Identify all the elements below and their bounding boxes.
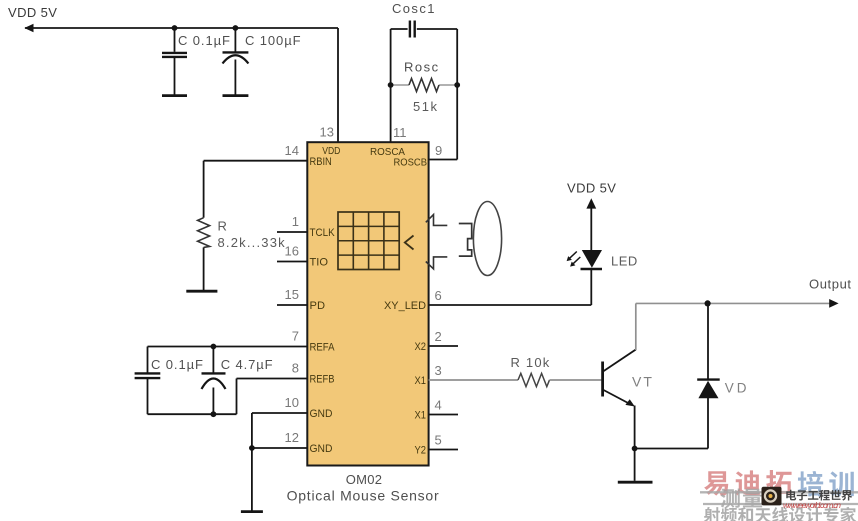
svg-text:13: 13 bbox=[320, 125, 334, 140]
svg-text:4: 4 bbox=[435, 398, 442, 413]
svg-text:XY_LED: XY_LED bbox=[384, 300, 426, 312]
svg-text:C 0.1µF: C 0.1µF bbox=[151, 357, 204, 372]
svg-text:PD: PD bbox=[310, 300, 326, 312]
svg-text:5: 5 bbox=[435, 433, 442, 448]
svg-text:14: 14 bbox=[285, 143, 299, 158]
svg-text:8.2k...33k: 8.2k...33k bbox=[218, 235, 286, 250]
svg-text:9: 9 bbox=[435, 143, 442, 158]
svg-text:GND: GND bbox=[310, 408, 333, 420]
svg-text:X1: X1 bbox=[415, 409, 427, 421]
svg-text:15: 15 bbox=[285, 287, 299, 302]
svg-text:7: 7 bbox=[292, 329, 299, 344]
svg-text:Rosc: Rosc bbox=[404, 60, 440, 75]
svg-text:C 100µF: C 100µF bbox=[245, 33, 301, 48]
svg-text:OM02: OM02 bbox=[346, 472, 383, 487]
svg-text:ROSCB: ROSCB bbox=[394, 156, 428, 168]
svg-text:REFB: REFB bbox=[310, 374, 335, 386]
svg-text:Output: Output bbox=[809, 277, 852, 292]
svg-text:R: R bbox=[218, 219, 227, 234]
svg-text:RBIN: RBIN bbox=[310, 156, 332, 168]
svg-text:51k: 51k bbox=[413, 99, 438, 114]
svg-text:6: 6 bbox=[435, 288, 442, 303]
svg-text:16: 16 bbox=[285, 244, 299, 259]
svg-text:VD: VD bbox=[725, 380, 750, 395]
svg-text:VT: VT bbox=[632, 374, 654, 390]
svg-text:X2: X2 bbox=[415, 341, 427, 353]
svg-text:VDD: VDD bbox=[322, 145, 341, 157]
svg-text:3: 3 bbox=[435, 363, 442, 378]
svg-text:1: 1 bbox=[292, 214, 299, 229]
svg-text:C 0.1µF: C 0.1µF bbox=[178, 33, 231, 48]
svg-text:C 4.7µF: C 4.7µF bbox=[221, 357, 274, 372]
svg-text:2: 2 bbox=[435, 329, 442, 344]
svg-text:8: 8 bbox=[292, 361, 299, 376]
svg-text:LED: LED bbox=[611, 253, 638, 268]
svg-text:TIO: TIO bbox=[310, 257, 329, 269]
svg-text:X1: X1 bbox=[415, 375, 427, 387]
svg-text:VDD 5V: VDD 5V bbox=[8, 5, 57, 20]
svg-text:Y2: Y2 bbox=[415, 444, 427, 456]
svg-text:Optical Mouse Sensor: Optical Mouse Sensor bbox=[287, 488, 440, 504]
svg-text:REFA: REFA bbox=[310, 342, 336, 354]
svg-text:10: 10 bbox=[285, 395, 299, 410]
svg-text:11: 11 bbox=[393, 125, 407, 140]
svg-text:GND: GND bbox=[310, 443, 333, 455]
svg-text:Cosc1: Cosc1 bbox=[392, 1, 436, 16]
svg-text:TCLK: TCLK bbox=[310, 227, 336, 239]
svg-text:R 10k: R 10k bbox=[511, 355, 551, 370]
svg-text:VDD 5V: VDD 5V bbox=[567, 180, 616, 195]
svg-text:12: 12 bbox=[285, 430, 299, 445]
